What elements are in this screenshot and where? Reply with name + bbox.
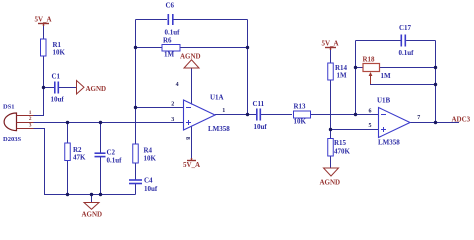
svg-text:0.1uf: 0.1uf — [165, 29, 181, 37]
svg-text:10K: 10K — [144, 155, 157, 163]
svg-text:1: 1 — [222, 108, 225, 114]
svg-text:U1A: U1A — [210, 94, 224, 102]
svg-text:10uf: 10uf — [254, 123, 268, 131]
svg-text:DS1: DS1 — [3, 104, 15, 111]
svg-text:5: 5 — [369, 123, 372, 129]
svg-text:R6: R6 — [163, 37, 172, 45]
svg-text:1: 1 — [29, 110, 32, 116]
svg-text:AGND: AGND — [82, 211, 103, 219]
svg-text:C11: C11 — [253, 100, 265, 108]
svg-text:2: 2 — [29, 116, 32, 122]
svg-text:3: 3 — [29, 123, 32, 129]
svg-text:R13: R13 — [294, 103, 307, 111]
svg-text:10K: 10K — [294, 118, 307, 126]
svg-text:R18: R18 — [363, 56, 376, 64]
svg-text:C4: C4 — [144, 177, 153, 185]
svg-text:0.1uf: 0.1uf — [399, 49, 415, 57]
svg-text:C1: C1 — [52, 73, 61, 81]
svg-text:7: 7 — [417, 115, 420, 121]
svg-text:D203S: D203S — [3, 136, 21, 143]
svg-text:470K: 470K — [334, 148, 351, 156]
svg-text:8: 8 — [184, 137, 190, 140]
svg-text:10uf: 10uf — [51, 96, 65, 104]
svg-text:6: 6 — [369, 108, 372, 114]
svg-text:C17: C17 — [399, 24, 412, 32]
svg-text:47K: 47K — [73, 154, 86, 162]
svg-text:1M: 1M — [164, 51, 175, 59]
svg-text:3: 3 — [171, 117, 174, 123]
svg-text:AGND: AGND — [320, 179, 341, 187]
svg-text:LM358: LM358 — [208, 125, 230, 133]
svg-text:AGND: AGND — [180, 53, 201, 61]
svg-text:LM358: LM358 — [378, 139, 400, 147]
svg-text:5V_A: 5V_A — [183, 161, 200, 169]
svg-text:1M: 1M — [337, 72, 348, 80]
svg-text:AGND: AGND — [86, 85, 107, 93]
svg-text:10K: 10K — [53, 49, 66, 57]
svg-text:U1B: U1B — [377, 97, 391, 105]
svg-text:R4: R4 — [144, 147, 153, 155]
svg-text:ADC3: ADC3 — [452, 116, 471, 124]
svg-text:4: 4 — [176, 82, 179, 88]
svg-text:5V_A: 5V_A — [35, 16, 52, 24]
svg-text:C2: C2 — [107, 149, 116, 157]
svg-text:C6: C6 — [166, 2, 175, 10]
svg-text:0.1uf: 0.1uf — [107, 157, 123, 165]
svg-text:2: 2 — [171, 101, 174, 107]
svg-text:5V_A: 5V_A — [322, 40, 339, 48]
svg-text:R15: R15 — [334, 139, 347, 147]
svg-text:10uf: 10uf — [144, 185, 158, 193]
svg-text:1M: 1M — [381, 72, 392, 80]
